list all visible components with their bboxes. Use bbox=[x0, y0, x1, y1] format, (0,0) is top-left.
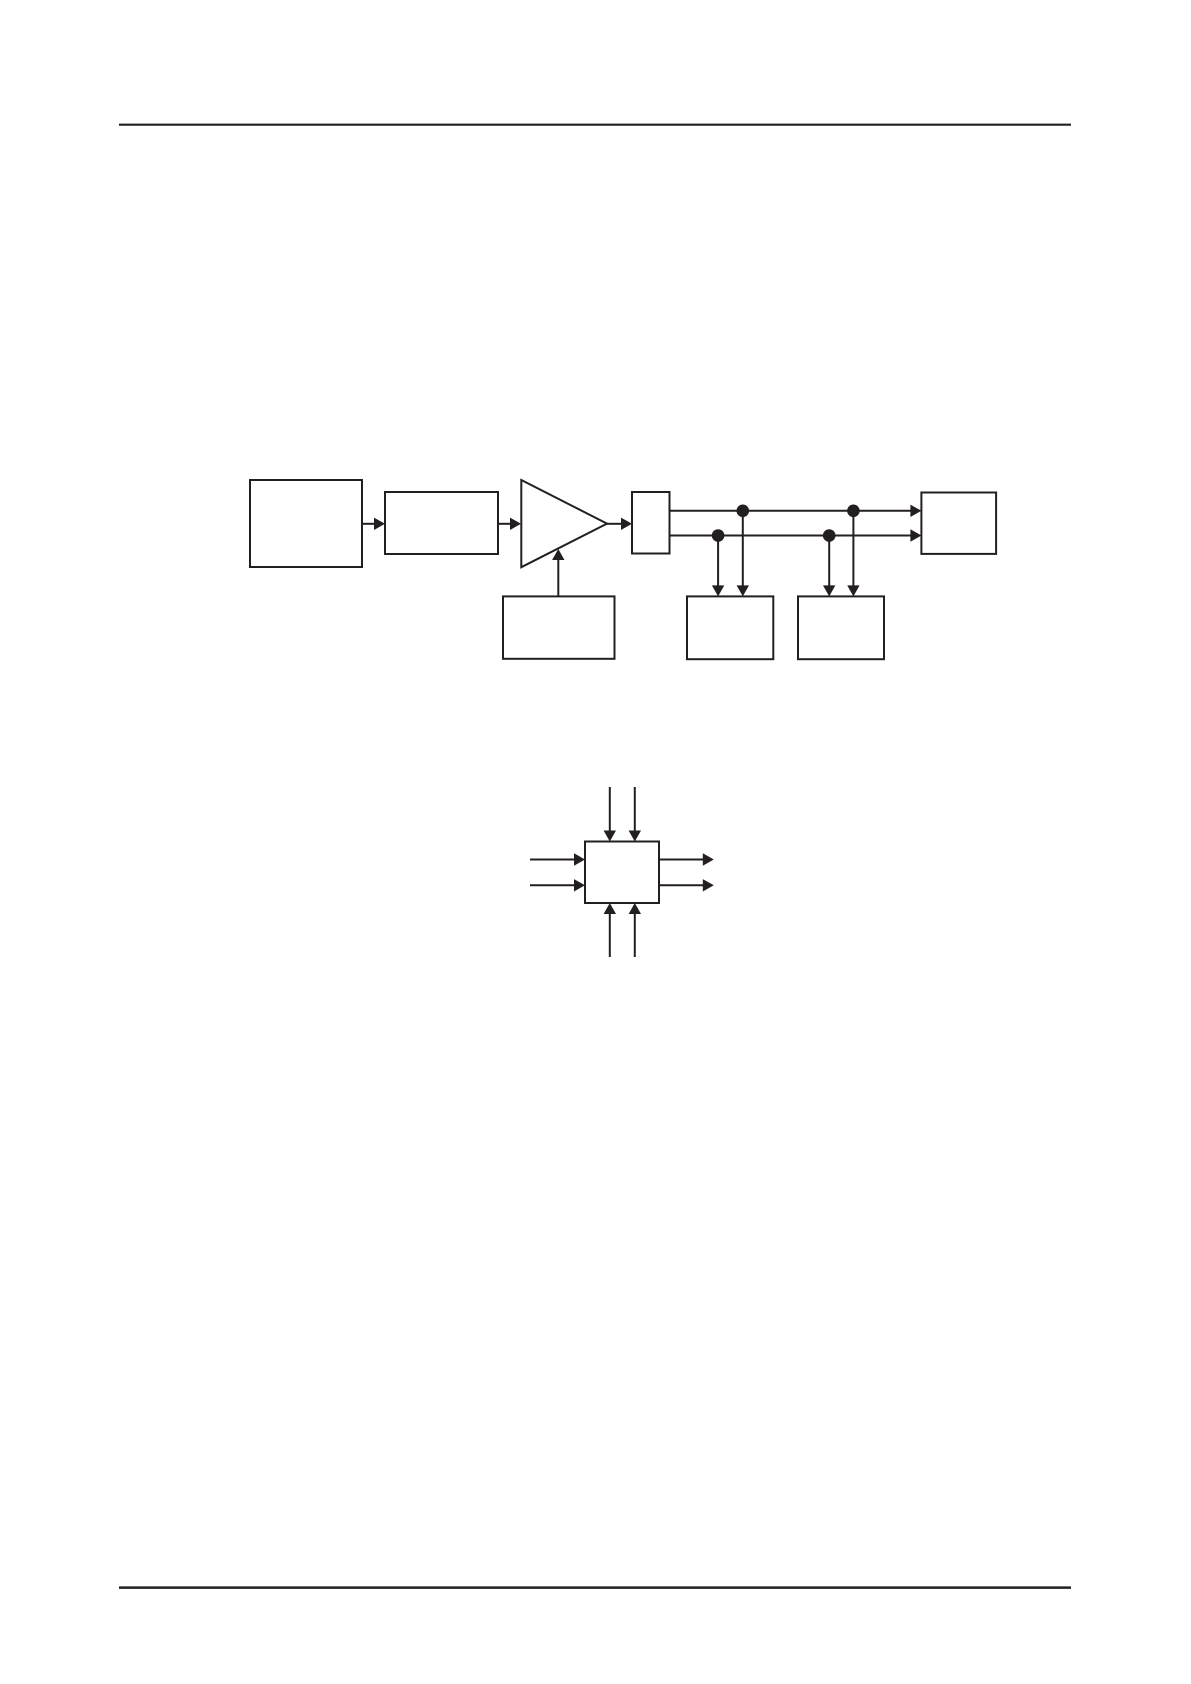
arrowhead bottom input 1 bbox=[604, 903, 616, 914]
wire: bottom input 2 bbox=[634, 912, 636, 957]
wire: top input 2 bbox=[634, 787, 636, 832]
arrowhead top bus into right block bbox=[910, 505, 921, 517]
wire: left input 2 bbox=[530, 884, 575, 886]
block: lower right consumer bbox=[798, 596, 884, 659]
wire: divider to amplifier bbox=[498, 523, 511, 525]
wire: tap down to left lower block (from top bus) bbox=[742, 511, 744, 587]
arrowhead right output 1 bbox=[703, 853, 714, 865]
block: buffer (small) bbox=[632, 492, 670, 554]
arrowhead left input 1 bbox=[574, 853, 585, 865]
arrowhead into amplifier bottom edge bbox=[552, 549, 564, 560]
wire: top input 1 bbox=[609, 787, 611, 832]
wire: top bus line bbox=[670, 510, 913, 512]
block: oscillator source (top-left) bbox=[250, 480, 362, 567]
arrowhead into left lower block (1) bbox=[712, 585, 724, 596]
wire: control to amplifier bbox=[557, 558, 559, 596]
arrowhead right output 2 bbox=[703, 879, 714, 891]
wire: tap down to left lower block (from bottom bus) bbox=[717, 536, 719, 588]
wire: right output 1 bbox=[659, 859, 704, 861]
wire: source to divider bbox=[362, 523, 375, 525]
arrowhead bottom input 2 bbox=[629, 903, 641, 914]
block: central unit (second diagram) bbox=[585, 842, 659, 904]
block: divider bbox=[385, 492, 498, 554]
block: control under amplifier bbox=[503, 596, 615, 658]
block: right output bbox=[921, 493, 996, 554]
arrowhead top input 1 bbox=[604, 831, 616, 842]
arrowhead into right lower block (2) bbox=[847, 585, 859, 596]
wire: bottom bus line bbox=[670, 535, 913, 537]
wire: bottom input 1 bbox=[609, 912, 611, 957]
amplifier triangle bbox=[521, 480, 607, 567]
wire: left input 1 bbox=[530, 859, 575, 861]
wire: tap down to right lower block (from top bus) bbox=[852, 511, 854, 587]
footer rule bbox=[119, 1586, 1071, 1589]
arrowhead bottom bus into right block bbox=[910, 529, 921, 541]
arrowhead into amplifier bbox=[510, 518, 521, 530]
arrowhead into right lower block (1) bbox=[823, 585, 835, 596]
junction dot bottom bus 1 bbox=[712, 529, 725, 542]
arrowhead into divider bbox=[374, 518, 385, 530]
wire: amplifier to buffer bbox=[607, 523, 623, 525]
arrowhead into buffer bbox=[621, 518, 632, 530]
wire: right output 2 bbox=[659, 884, 704, 886]
arrowhead into left lower block (2) bbox=[737, 585, 749, 596]
block: lower left consumer bbox=[687, 596, 773, 659]
junction dot top bus 2 bbox=[847, 505, 860, 518]
arrowhead top input 2 bbox=[629, 831, 641, 842]
junction dot top bus 1 bbox=[737, 505, 750, 518]
junction dot bottom bus 2 bbox=[823, 529, 836, 542]
wire: tap down to right lower block (from bottom bus) bbox=[828, 536, 830, 588]
header rule bbox=[119, 124, 1071, 126]
arrowhead left input 2 bbox=[574, 879, 585, 891]
